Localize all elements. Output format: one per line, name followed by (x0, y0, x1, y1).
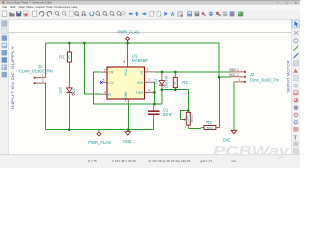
junction SIG R2 (174, 71, 177, 74)
no-connect X on CV (100, 81, 102, 83)
junction rail R4 (83, 42, 86, 45)
svg-text:mm: mm (231, 159, 237, 163)
connector J2 (230, 68, 279, 83)
toolbar icon: new (2, 11, 7, 16)
junction pot top (187, 109, 190, 112)
junction SIG D2 (161, 71, 164, 74)
svg-text:–: – (277, 1, 279, 5)
pin 7 DIS (145, 81, 155, 83)
svg-text:R3: R3 (206, 120, 212, 125)
ground mid (123, 132, 131, 145)
right icon 18 (293, 149, 298, 153)
wire top VCC rail (46, 42, 219, 44)
junction bottom D1 (68, 128, 71, 131)
svg-text:8: 8 (123, 60, 125, 64)
ground right (223, 130, 237, 142)
resistor R1 (59, 52, 71, 62)
wire D2 R2 bottom link to pot (162, 90, 188, 111)
svg-text:Help: Help (72, 5, 78, 9)
toolbar icon: red dot tool (202, 12, 205, 15)
svg-text:4: 4 (104, 90, 106, 94)
PWR_FLAG top (118, 29, 140, 40)
wire R3 right riser to VCC (218, 77, 220, 127)
wire J1 pin2 drop (45, 83, 47, 130)
svg-text:3: 3 (237, 68, 239, 72)
toolbar icon: undo (39, 12, 44, 17)
wire D2 descender (154, 90, 162, 104)
svg-text:2: 2 (237, 73, 239, 77)
toolbar icon: table (195, 12, 200, 17)
wire R1 top stub (68, 43, 70, 52)
svg-text:THR: THR (135, 91, 143, 95)
wire pot bottom to R3 (188, 127, 201, 129)
svg-text:RV1: RV1 (190, 115, 194, 122)
right icon 2 (294, 31, 298, 35)
toolbar icon: green board (238, 12, 243, 17)
toolbar icon: save (16, 11, 21, 16)
toolbar separators (30, 11, 236, 18)
op-amp timer U1 NA555P (100, 53, 154, 103)
toolbar icon: erc (82, 12, 85, 15)
svg-text:1K: 1K (67, 54, 71, 59)
svg-text:LED: LED (59, 87, 63, 94)
pin 5 CV (103, 81, 107, 83)
toolbar icon: find-replace (75, 12, 79, 16)
wire J1 pin1 riser (45, 43, 47, 78)
left toolbar (0, 19, 9, 154)
wire PWR_FLAG stub top (127, 41, 129, 43)
junction rail VCC8 (126, 42, 129, 45)
pin 4 R (102, 93, 107, 95)
svg-text:Tools: Tools (46, 5, 53, 9)
right icon 8 (293, 76, 298, 81)
diode D2 1N4148 (154, 72, 169, 90)
svg-text:Place: Place (27, 5, 35, 9)
svg-text:2: 2 (104, 68, 106, 72)
right icon 11 (294, 98, 299, 103)
svg-text:R: R (108, 93, 111, 97)
window background (0, 0, 300, 168)
svg-text:Conn_01x02_Pin: Conn_01x02_Pin (19, 69, 53, 74)
svg-text:10K: 10K (185, 115, 189, 122)
left icon 2 (2, 28, 7, 33)
svg-text:560: 560 (207, 126, 213, 130)
LED D1 (66, 83, 74, 95)
toolbar icon: arrow up (135, 12, 139, 16)
svg-text:NA555P: NA555P (132, 58, 149, 63)
wire DIS-THR-C1 vertical (153, 82, 155, 105)
left icon 1 (2, 21, 7, 26)
right icon 14 (294, 120, 299, 125)
svg-text:File: File (3, 5, 8, 9)
svg-text:Preferences: Preferences (55, 5, 71, 9)
app icon (2, 1, 4, 3)
svg-text:TR: TR (108, 71, 113, 75)
svg-text:R2: R2 (182, 80, 188, 85)
right icon 17 (293, 142, 298, 147)
svg-text:Inspect: Inspect (36, 5, 46, 9)
svg-text:Servo Motor Tester — Schematic: Servo Motor Tester — Schematic Editor (7, 1, 53, 5)
right icon 4 (294, 46, 299, 51)
svg-text:GND: GND (223, 137, 230, 142)
right icon 6 (293, 61, 298, 66)
toolbar icon: arrow right (142, 12, 146, 16)
svg-text:R1: R1 (59, 54, 65, 59)
svg-text:D1: D1 (72, 88, 76, 93)
junction bottom GND1 (127, 128, 130, 131)
svg-text:PCBWay: PCBWay (213, 143, 291, 159)
svg-text:Edit: Edit (11, 5, 16, 9)
svg-text:5: 5 (103, 78, 105, 82)
svg-text:7: 7 (148, 78, 150, 82)
toolbar icon: sim (187, 11, 192, 16)
wire GND mid stub (127, 130, 129, 132)
toolbar icon: find2 (62, 12, 65, 15)
right icon 12 (294, 105, 299, 110)
wire J2 pin1 drop to GND (233, 82, 235, 130)
potentiometer RV1 (181, 111, 194, 129)
svg-text:1: 1 (42, 74, 44, 78)
wire pot wiper loop (180, 111, 188, 120)
svg-text:VCC: VCC (229, 72, 236, 77)
svg-text:D2: D2 (154, 79, 158, 84)
junction R2 bottom (174, 88, 177, 91)
toolbar icon: pcbnew (230, 11, 235, 16)
toolbar icon: zoom obj (121, 12, 124, 15)
junction rail R1 (68, 42, 71, 45)
svg-text:1N4148: 1N4148 (165, 76, 169, 89)
svg-text:Q: Q (140, 71, 143, 75)
toolbar icon: sheet up (150, 11, 154, 16)
svg-text:PWR_FLAG: PWR_FLAG (118, 29, 140, 34)
right icon 15 (293, 127, 298, 132)
toolbar icon: sheet red (24, 11, 28, 16)
svg-text:Conn_01x03_Pin: Conn_01x03_Pin (250, 77, 280, 82)
pin 6 THR (145, 91, 155, 93)
pin 3 Q (145, 71, 155, 73)
toolbar icon: arrow left (128, 12, 132, 16)
toolbar icon: open (9, 13, 14, 17)
capacitor C1 (148, 106, 173, 120)
left icon 4 (2, 43, 7, 48)
pin 8 VCC (127, 62, 129, 68)
resistor R2 (172, 72, 188, 90)
pin 1 GND (127, 99, 129, 103)
wire VCC to J2 pin2 (219, 76, 230, 78)
wire VCC pin8 stub (127, 43, 129, 62)
resistor R3 (201, 120, 220, 131)
connector J1 (19, 64, 53, 84)
svg-text:GND: GND (123, 139, 131, 144)
toolbar icon: find (55, 12, 58, 15)
left icon 6 (2, 57, 7, 62)
menu bar (0, 5, 300, 10)
wire TR branch (93, 72, 154, 104)
svg-text:Z 7.75: Z 7.75 (88, 159, 97, 163)
junction servo VCC (218, 76, 221, 79)
toolbar icon: footprint (216, 12, 219, 15)
svg-text:View: View (19, 5, 26, 9)
toolbar icon: zoom out (103, 12, 107, 16)
svg-text:2: 2 (42, 79, 44, 83)
left icon 5 (2, 50, 7, 55)
PWR_FLAG bottom (88, 132, 111, 145)
svg-text:DIS: DIS (137, 81, 144, 85)
right icon: cursor selected (292, 20, 299, 28)
toolbar icon: run (164, 12, 168, 16)
wire GND pin1 drop (127, 103, 129, 130)
right icon 10 (293, 90, 298, 95)
wire bottom GND rail (46, 129, 154, 131)
wire PWR_FLAG stub bottom (98, 130, 100, 132)
toolbar icon: sheet dn (157, 11, 161, 16)
svg-text:1: 1 (239, 78, 241, 82)
wire C1 bottom to rail (153, 120, 155, 130)
wire rail right drop to servo VCC (218, 43, 220, 77)
junction THR (153, 91, 156, 94)
svg-text:INPUT 6V DC SUPPLY: INPUT 6V DC SUPPLY (10, 45, 15, 109)
svg-text:PWR_FLAG: PWR_FLAG (88, 140, 111, 145)
right icon 13 (294, 113, 299, 118)
svg-text:X 157.48 Y 95.25: X 157.48 Y 95.25 (112, 159, 136, 163)
sheet top border (9, 32, 292, 34)
right icon 5 (294, 53, 299, 58)
top toolbar (0, 9, 300, 19)
svg-text:GND: GND (124, 91, 128, 98)
wire LED to GND rail (68, 95, 70, 129)
svg-text:1K: 1K (172, 80, 176, 85)
svg-text:VCC: VCC (124, 68, 128, 76)
wire SIG output (154, 71, 230, 73)
left icon 7 (2, 65, 7, 70)
svg-text:6: 6 (148, 88, 150, 92)
wire R1 to LED (68, 62, 70, 83)
toolbar icon: grid table (223, 12, 228, 17)
right icon 3 (294, 39, 298, 43)
toolbar icon: erc check (178, 11, 183, 16)
toolbar icon: paste doc (32, 11, 36, 16)
svg-text:22nF: 22nF (163, 112, 173, 117)
svg-text:CV: CV (108, 81, 114, 85)
svg-text:3: 3 (147, 68, 149, 72)
title bar (0, 0, 300, 5)
toolbar icon: paste faint (69, 11, 73, 16)
toolbar icon: zoom sel (117, 12, 121, 16)
right toolbar (291, 19, 300, 154)
toolbar icon: redo (47, 12, 52, 17)
toolbar icon: refresh (90, 12, 94, 16)
wire reset pin4 to VCC rail (84, 43, 101, 94)
toolbar icon: zoom in (96, 12, 100, 16)
status bar (0, 155, 300, 168)
svg-text:A: A (171, 12, 175, 18)
right icon 7 (293, 69, 298, 73)
toolbar icon: globe (209, 12, 213, 16)
junction D2 bottom (161, 88, 164, 91)
right icon 9 (294, 84, 298, 88)
left icon 8 (2, 72, 7, 77)
junction TR-THR (153, 103, 156, 106)
toolbar icon: zoom fit (110, 12, 114, 16)
left icon 3 (2, 35, 7, 40)
svg-text:dx 157.48 dy 95.25 dist 184.: dx 157.48 dy 95.25 dist 184.05 (148, 159, 191, 163)
pin 2 TR (102, 71, 107, 73)
svg-text:SERVO MOTOR: SERVO MOTOR (286, 60, 291, 93)
svg-text:grid 1.27: grid 1.27 (200, 159, 212, 163)
